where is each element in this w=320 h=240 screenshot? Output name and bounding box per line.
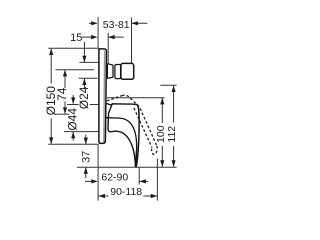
- arrow 15 right: [108, 35, 115, 39]
- dimension 53-81 line: [89, 22, 92, 24]
- extension line plate-back vertical x=98: [97, 17, 99, 48]
- dimension 15 line: [82, 36, 92, 38]
- dimension 100 line: [161, 98, 163, 123]
- arrow 90-118 right: [151, 194, 158, 198]
- svg-text:62-90: 62-90: [101, 172, 128, 184]
- svg-text:37: 37: [80, 151, 92, 163]
- extension line handle-front x=139.2: [138, 167, 140, 184]
- handle back edge and underside: [108, 104, 135, 166]
- svg-text:112: 112: [166, 126, 178, 143]
- handle tip foot: [135, 150, 136, 166]
- dimension 37 line: [85, 135, 87, 145]
- extension line knob-front x=132.6: [131, 18, 133, 64]
- arrow D150 bottom: [49, 137, 53, 144]
- arrow D44 top: [71, 97, 75, 104]
- handle lever inner edge: [107, 118, 137, 167]
- arrow D44 bottom: [71, 132, 75, 139]
- arrow 62-90 right: [139, 179, 146, 183]
- arrow 62-90 left: [91, 179, 98, 183]
- handle body top edge: [107, 104, 137, 106]
- stop knob: [121, 63, 134, 79]
- extension line 74-top y=69.7: [56, 69, 95, 71]
- arrow 37 top: [84, 138, 88, 145]
- sleeve ring: [115, 65, 121, 79]
- dashed lever tip arc (open position): [152, 146, 158, 154]
- dimension D24 line: [83, 42, 85, 62]
- extension line plate-top y=48.3: [48, 47, 98, 49]
- extension line sleeve-bottom y=78.2: [79, 77, 98, 79]
- svg-text:Ø24: Ø24: [77, 86, 91, 109]
- arrow 15 left: [91, 35, 98, 39]
- dimension D44 line: [72, 95, 74, 104]
- arrow 100 bottom: [160, 160, 164, 167]
- arrow 53-81 left: [91, 21, 98, 25]
- dimension 74 line: [64, 70, 66, 88]
- dashed lever front edge (open position): [122, 95, 157, 146]
- dashed lever top edge (open position): [107, 96, 122, 101]
- extension line 112-top y=85.3: [160, 84, 176, 86]
- arrow D24 top: [82, 56, 86, 63]
- svg-text:90-118: 90-118: [110, 186, 142, 198]
- dimension D150 line: [50, 49, 52, 84]
- arrow 37 bottom: [84, 167, 88, 174]
- arrow 90-118 left: [99, 194, 106, 198]
- arrow 112 bottom: [172, 160, 176, 167]
- extension line lever-swung-front x=157.4: [156, 159, 158, 201]
- extension line handle-bottom y=167.2: [77, 166, 177, 168]
- extension line plate-bottom y=144.2: [48, 143, 98, 145]
- arrow D150 top: [49, 49, 53, 56]
- arrow 74 bottom: [63, 107, 67, 114]
- dimension 112 line: [173, 86, 175, 123]
- arrow 100 top: [160, 98, 164, 105]
- svg-text:53-81: 53-81: [103, 19, 130, 31]
- svg-text:Ø44: Ø44: [66, 108, 80, 131]
- extension line 74-bottom y=114.2: [54, 113, 69, 115]
- extension line sleeve-top y=62.4: [79, 61, 98, 63]
- dashed lever inner edge (open position): [134, 108, 152, 148]
- arrow 112 top: [172, 86, 176, 93]
- svg-text:15: 15: [70, 32, 82, 44]
- svg-text:74: 74: [55, 87, 69, 101]
- arrow D24 bottom: [82, 79, 86, 86]
- extension line handle-top y=97.7: [107, 97, 165, 99]
- dimension 90-118 line: [99, 195, 109, 197]
- arrow 53-81 right: [131, 21, 138, 25]
- escutcheon plate: [99, 49, 107, 143]
- dimension 62-90 line: [85, 180, 92, 182]
- arrow 74 top: [63, 70, 67, 77]
- extension line hub-top y=104.4: [67, 104, 79, 106]
- sleeve cone: [107, 64, 113, 79]
- extension line handle-back x=108: [107, 33, 109, 63]
- handle lever front edge: [136, 105, 139, 167]
- escutcheon plate shading: [103, 51, 106, 142]
- extension line hub-bottom y=131.6: [64, 131, 98, 133]
